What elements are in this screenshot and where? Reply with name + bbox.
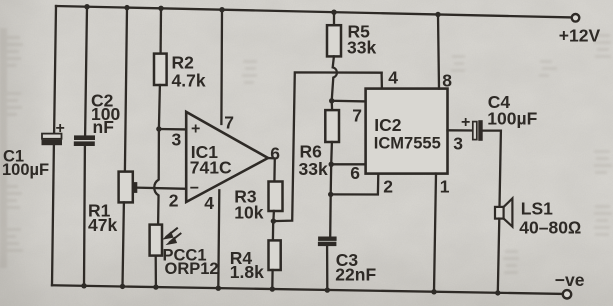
svg-text:10k: 10k — [234, 202, 263, 222]
svg-text:7: 7 — [352, 105, 362, 125]
junction top rail / pin8 — [435, 12, 440, 17]
wire IC2 pin6 — [331, 163, 365, 165]
svg-text:100µF: 100µF — [487, 108, 537, 128]
svg-text:nF: nF — [93, 117, 115, 137]
svg-text:22nF: 22nF — [335, 264, 376, 284]
junction bottom rail / pin4 — [216, 286, 221, 291]
junction top rail / pin7 — [219, 7, 224, 12]
svg-text:ORP12: ORP12 — [165, 260, 219, 278]
svg-text:40–80Ω: 40–80Ω — [519, 217, 581, 237]
junction pin2 node — [328, 192, 333, 197]
photocell PCC1 — [150, 225, 162, 256]
wire R1 top lead from rail — [125, 8, 127, 172]
wire C4 to speaker branch — [482, 131, 501, 207]
wire R5 bottom with hop over pin4 wire — [332, 56, 337, 100]
svg-text:100µF: 100µF — [2, 161, 49, 179]
terminal -ve — [563, 290, 571, 298]
svg-text:6: 6 — [270, 143, 280, 163]
svg-text:3: 3 — [172, 129, 182, 149]
junction pin3 node — [156, 126, 161, 131]
svg-text:4.7k: 4.7k — [172, 70, 206, 90]
svg-text:4: 4 — [204, 193, 214, 213]
junction bottom rail / R4 — [270, 286, 275, 291]
svg-text:1.8k: 1.8k — [230, 262, 264, 282]
wire C3 bottom lead to rail — [326, 246, 328, 291]
wire R6 bottom to pin6/pin2 nodes and C3 — [330, 142, 332, 237]
wire bottom 0V rail — [52, 285, 563, 294]
resistor R4 — [269, 240, 281, 270]
svg-text:+12V: +12V — [559, 25, 601, 45]
capacitor C2 — [74, 136, 94, 146]
svg-text:R2: R2 — [172, 52, 195, 72]
wire C2 vertical branch — [84, 7, 87, 286]
wire op-amp output pin 6 to R3 — [268, 158, 275, 182]
svg-text:+: + — [461, 114, 470, 131]
speaker LS1 — [495, 198, 512, 226]
op-amp IC1 741C triangle — [186, 112, 268, 202]
junction pin6 node — [329, 162, 334, 167]
wire op-amp pin 3 input — [159, 128, 186, 131]
wire R3 bottom to node A — [272, 211, 275, 221]
wire left vertical (C1 branch) — [52, 6, 56, 285]
junction bottom rail / speaker — [495, 290, 500, 295]
svg-text:33k: 33k — [299, 159, 328, 179]
svg-text:+: + — [191, 120, 200, 137]
wire speaker to 0V rail — [498, 219, 500, 293]
wire IC2 pin1 to rail — [434, 174, 436, 292]
svg-text:1: 1 — [440, 176, 450, 196]
svg-text:33k: 33k — [347, 38, 376, 58]
svg-text:4: 4 — [388, 67, 398, 87]
svg-text:741C: 741C — [190, 157, 232, 177]
junction bottom rail / C2 — [81, 283, 86, 288]
wire node A to R4 — [272, 221, 275, 240]
junction bottom rail / C3 — [325, 287, 330, 292]
wire R4 bottom lead to rail — [271, 270, 274, 289]
wire IC2 pin2 — [331, 174, 379, 195]
wire IC2 pin4 riser into box — [380, 73, 383, 89]
capacitor C3 — [318, 237, 336, 246]
junction top rail / R1 — [124, 5, 129, 10]
resistor R3 — [269, 182, 283, 212]
wire op-amp pin 7 supply from rail — [220, 10, 223, 124]
junction bottom rail / PCC1 — [153, 284, 158, 289]
junction bottom rail / R1 — [120, 284, 125, 289]
potentiometer R1 — [119, 172, 133, 203]
wire R5 top lead from rail — [333, 12, 335, 25]
wire IC2 pin7 — [332, 100, 366, 103]
junction top rail / R2 — [158, 6, 163, 11]
wire IC2 pin8 from rail — [438, 15, 439, 89]
wire pin7 node to R6 — [331, 101, 334, 110]
svg-text:+: + — [56, 120, 65, 137]
wire R1 bottom lead to rail — [123, 202, 124, 286]
wire R2 bottom to pin3 node — [159, 85, 160, 129]
wire R2 top lead from rail — [159, 8, 162, 53]
junction bottom rail / pin1 — [431, 289, 436, 294]
wire node to PCC1 with hop over wiper — [154, 129, 159, 225]
svg-text:47k: 47k — [88, 215, 117, 235]
svg-text:2: 2 — [169, 190, 179, 210]
svg-text:ICM7555: ICM7555 — [374, 135, 441, 153]
terminal +12V — [572, 14, 580, 22]
wire op-amp pin 4 to 0V rail — [218, 190, 219, 288]
resistor R2 — [154, 54, 167, 85]
svg-text:8: 8 — [442, 70, 452, 90]
svg-text:2: 2 — [383, 176, 393, 196]
svg-text:7: 7 — [224, 112, 234, 132]
wire PCC1 bottom lead to rail — [155, 256, 157, 288]
capacitor C1 — [42, 134, 62, 145]
svg-text:3: 3 — [453, 133, 463, 153]
junction top rail / R5 — [331, 10, 336, 15]
junction top rail / C2 — [84, 4, 89, 9]
wire node A to IC2 pin4 (up the riser) — [273, 72, 381, 221]
svg-text:6: 6 — [350, 163, 360, 183]
svg-text:−: − — [190, 180, 199, 197]
R1 wiper arm — [134, 183, 186, 193]
capacitor C4 — [473, 121, 482, 141]
svg-text:IC2: IC2 — [374, 115, 402, 135]
wire IC2 pin3 output — [448, 129, 473, 131]
resistor R6 — [325, 110, 339, 142]
junction node A (R3/R4) — [271, 218, 276, 223]
IC2 ICM7555 body — [366, 89, 448, 174]
PCC1 light arrows — [164, 228, 181, 244]
wire top supply rail — [56, 6, 572, 17]
svg-text:LS1: LS1 — [521, 198, 553, 218]
junction pin7 node — [329, 98, 334, 103]
svg-text:−ve: −ve — [555, 270, 585, 290]
resistor R5 — [327, 25, 341, 56]
